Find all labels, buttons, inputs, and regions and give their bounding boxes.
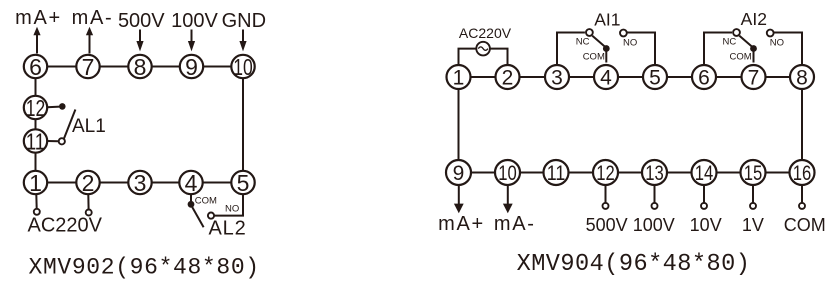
svg-text:NC: NC	[723, 36, 737, 47]
AI1 NO contact	[620, 30, 627, 37]
open terminal below 13	[652, 203, 658, 209]
svg-text:COM: COM	[784, 215, 826, 235]
svg-text:1: 1	[453, 67, 465, 90]
svg-text:AI1: AI1	[594, 10, 620, 30]
arrow down below terminal 9	[454, 186, 464, 214]
AL2 open contact NO	[208, 213, 214, 219]
stub below terminal 1	[35, 194, 37, 209]
svg-text:AL2: AL2	[209, 218, 247, 240]
svg-text:11: 11	[26, 128, 46, 154]
terminal 10	[495, 160, 520, 185]
terminal 4	[594, 65, 618, 90]
wire top bus 6-10	[36, 66, 244, 68]
svg-text:NO: NO	[770, 37, 784, 48]
terminal 1	[24, 170, 47, 196]
svg-text:AC220V: AC220V	[28, 215, 103, 237]
svg-text:6: 6	[29, 54, 42, 80]
wire left vertical 6-12-11-1	[35, 67, 37, 183]
svg-text:15: 15	[744, 162, 763, 185]
AC source symbol	[476, 42, 490, 56]
wire terminal 12 to AL1 common	[47, 106, 60, 109]
svg-text:5: 5	[237, 170, 250, 196]
svg-text:5: 5	[649, 67, 661, 90]
terminal 3	[545, 65, 569, 90]
stub below terminal 16	[801, 186, 803, 204]
wire terminal 6 to AI2 NC	[704, 33, 732, 66]
open terminal below 12	[603, 203, 609, 209]
open terminal below 1	[34, 209, 40, 215]
svg-text:8: 8	[796, 67, 808, 90]
open terminal below 15	[750, 203, 756, 209]
svg-text:GND: GND	[222, 10, 266, 32]
arrow down at terminal 9	[188, 30, 195, 52]
terminal 5	[231, 170, 254, 196]
svg-text:7: 7	[748, 67, 760, 90]
svg-text:7: 7	[82, 54, 95, 80]
wire AL2 contact to terminal 5	[214, 194, 243, 216]
AL1 switch blade	[64, 110, 75, 139]
terminal 16	[790, 160, 815, 185]
svg-text:12: 12	[596, 162, 615, 185]
svg-text:2: 2	[502, 67, 514, 90]
terminal 6	[24, 54, 47, 80]
wire top bus 1-8	[459, 76, 803, 78]
terminal 7	[76, 54, 99, 80]
svg-text:13: 13	[645, 162, 664, 185]
AI2 switch blade	[739, 36, 752, 47]
terminal 11	[24, 128, 47, 154]
svg-text:4: 4	[600, 67, 612, 90]
svg-text:500V: 500V	[586, 215, 628, 235]
AL2 switch blade	[192, 207, 203, 227]
svg-text:10: 10	[498, 162, 517, 185]
svg-text:11: 11	[547, 162, 566, 185]
svg-text:1: 1	[29, 170, 42, 196]
terminal 13	[642, 160, 667, 185]
AI2 NC contact	[733, 29, 740, 36]
terminal 9	[446, 160, 471, 185]
wire terminal 4 to AL2 common	[190, 194, 192, 201]
svg-text:mA+: mA+	[15, 7, 62, 29]
wire terminal 3 to AI1 NC	[557, 33, 585, 66]
terminal 2	[496, 65, 520, 90]
AL1 common dot	[59, 103, 66, 110]
terminal 7	[742, 65, 766, 90]
svg-text:100V: 100V	[633, 215, 675, 235]
svg-text:COM: COM	[583, 52, 605, 63]
svg-text:mA-: mA-	[72, 7, 114, 29]
wire bottom bus 9-16	[459, 172, 803, 174]
arrow down below terminal 10	[503, 186, 513, 214]
AI1 common dot	[603, 45, 610, 52]
open terminal below 16	[799, 203, 805, 209]
terminal 11	[544, 160, 569, 185]
terminal 8	[128, 54, 151, 80]
svg-text:NC: NC	[576, 36, 590, 47]
terminal 4	[179, 170, 202, 196]
svg-text:16: 16	[793, 162, 812, 185]
svg-text:14: 14	[695, 162, 714, 185]
wire terminal 1 to AC source	[459, 49, 477, 65]
svg-text:8: 8	[134, 54, 147, 80]
stub below terminal 12	[605, 186, 607, 204]
svg-text:NO: NO	[225, 204, 239, 215]
terminal 2	[76, 170, 99, 196]
AL2 common dot COM	[188, 201, 195, 208]
wire terminal 11 to AL1 contact	[47, 140, 59, 142]
wire right vertical 8-16	[801, 77, 803, 173]
AI1 switch blade	[592, 36, 605, 47]
AI1 NC contact	[586, 29, 593, 36]
svg-text:COM: COM	[730, 52, 752, 63]
terminal 1	[447, 65, 471, 90]
terminal 15	[741, 160, 766, 185]
AI2 common dot	[750, 45, 757, 52]
svg-text:2: 2	[82, 170, 95, 196]
arrow up at terminal 6	[33, 27, 40, 54]
terminal 10	[231, 54, 254, 80]
wire right vertical 10-5	[242, 67, 244, 183]
svg-text:1V: 1V	[742, 215, 764, 235]
svg-text:mA-: mA-	[494, 213, 536, 235]
AI2 NO contact	[767, 30, 774, 37]
wire left vertical 1-9	[458, 77, 460, 173]
svg-text:AI2: AI2	[741, 9, 767, 29]
AL1 open contact	[59, 138, 65, 144]
svg-text:AL1: AL1	[72, 116, 106, 137]
wire bottom bus 1-5	[36, 182, 244, 184]
svg-text:10: 10	[233, 54, 253, 80]
wire AC source to terminal 2	[490, 49, 508, 65]
wire AI1 common to terminal 4	[605, 52, 607, 63]
stub below terminal 14	[703, 186, 705, 204]
svg-text:XMV904(96*48*80): XMV904(96*48*80)	[517, 251, 751, 278]
svg-text:mA+: mA+	[438, 213, 485, 235]
svg-text:12: 12	[26, 95, 46, 121]
arrow up at terminal 7	[86, 27, 93, 54]
svg-text:9: 9	[453, 162, 465, 185]
svg-text:XMV902(96*48*80): XMV902(96*48*80)	[29, 254, 260, 280]
terminal 8	[790, 65, 814, 90]
stub below terminal 13	[654, 186, 656, 204]
svg-text:4: 4	[185, 170, 198, 196]
stub below terminal 15	[752, 186, 754, 204]
open terminal below 2	[86, 210, 92, 216]
svg-text:3: 3	[551, 67, 563, 90]
wire AI1 NO to terminal 5	[627, 33, 655, 66]
svg-text:10V: 10V	[690, 215, 722, 235]
arrow down at terminal 10	[239, 30, 246, 52]
svg-text:6: 6	[698, 67, 710, 90]
svg-text:100V: 100V	[171, 10, 218, 32]
open terminal below 14	[701, 203, 707, 209]
terminal 9	[180, 54, 203, 80]
svg-text:AC220V: AC220V	[459, 25, 512, 41]
terminal 5	[643, 65, 667, 90]
svg-text:3: 3	[134, 170, 147, 196]
svg-text:NO: NO	[623, 37, 637, 48]
terminal 3	[128, 170, 151, 196]
terminal 6	[692, 65, 716, 90]
stub below terminal 2	[87, 194, 89, 210]
arrow down at terminal 8	[136, 30, 143, 52]
wire AI2 NO to terminal 8	[774, 33, 802, 66]
wire AI2 common to terminal 7	[753, 52, 755, 63]
svg-text:9: 9	[185, 54, 198, 80]
terminal 12	[24, 95, 47, 121]
svg-text:500V: 500V	[118, 10, 165, 32]
terminal 12	[593, 160, 618, 185]
terminal 14	[692, 160, 717, 185]
svg-text:COM: COM	[195, 196, 217, 207]
